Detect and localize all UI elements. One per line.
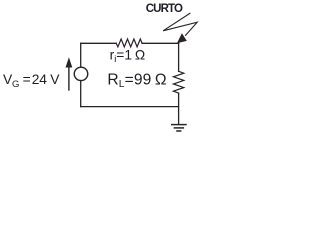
- wire bottom: [81, 106, 179, 108]
- wire right upper (to R_L): [178, 43, 180, 71]
- source current arrow: [66, 57, 73, 90]
- svg-text:RL=99 Ω: RL=99 Ω: [107, 71, 166, 90]
- wire top-right segment: [142, 42, 179, 44]
- voltage source V_G circle: [74, 67, 88, 81]
- wire right lower (to ground): [178, 93, 180, 124]
- wire left lower (source bottom lead): [80, 81, 82, 107]
- ground: [171, 125, 187, 131]
- lightning arrowhead: [177, 33, 187, 43]
- wire top-left segment: [81, 42, 117, 44]
- resistor R_L (vertical zigzag): [173, 71, 183, 93]
- resistor r_i (horizontal zigzag): [116, 39, 142, 47]
- short-circuit lightning arrow: [163, 13, 197, 36]
- svg-text:CURTO: CURTO: [146, 3, 183, 15]
- svg-text:ri=1 Ω: ri=1 Ω: [110, 48, 146, 65]
- svg-text:VG =24 V: VG =24 V: [3, 72, 60, 90]
- wire left upper (source top lead): [80, 43, 82, 67]
